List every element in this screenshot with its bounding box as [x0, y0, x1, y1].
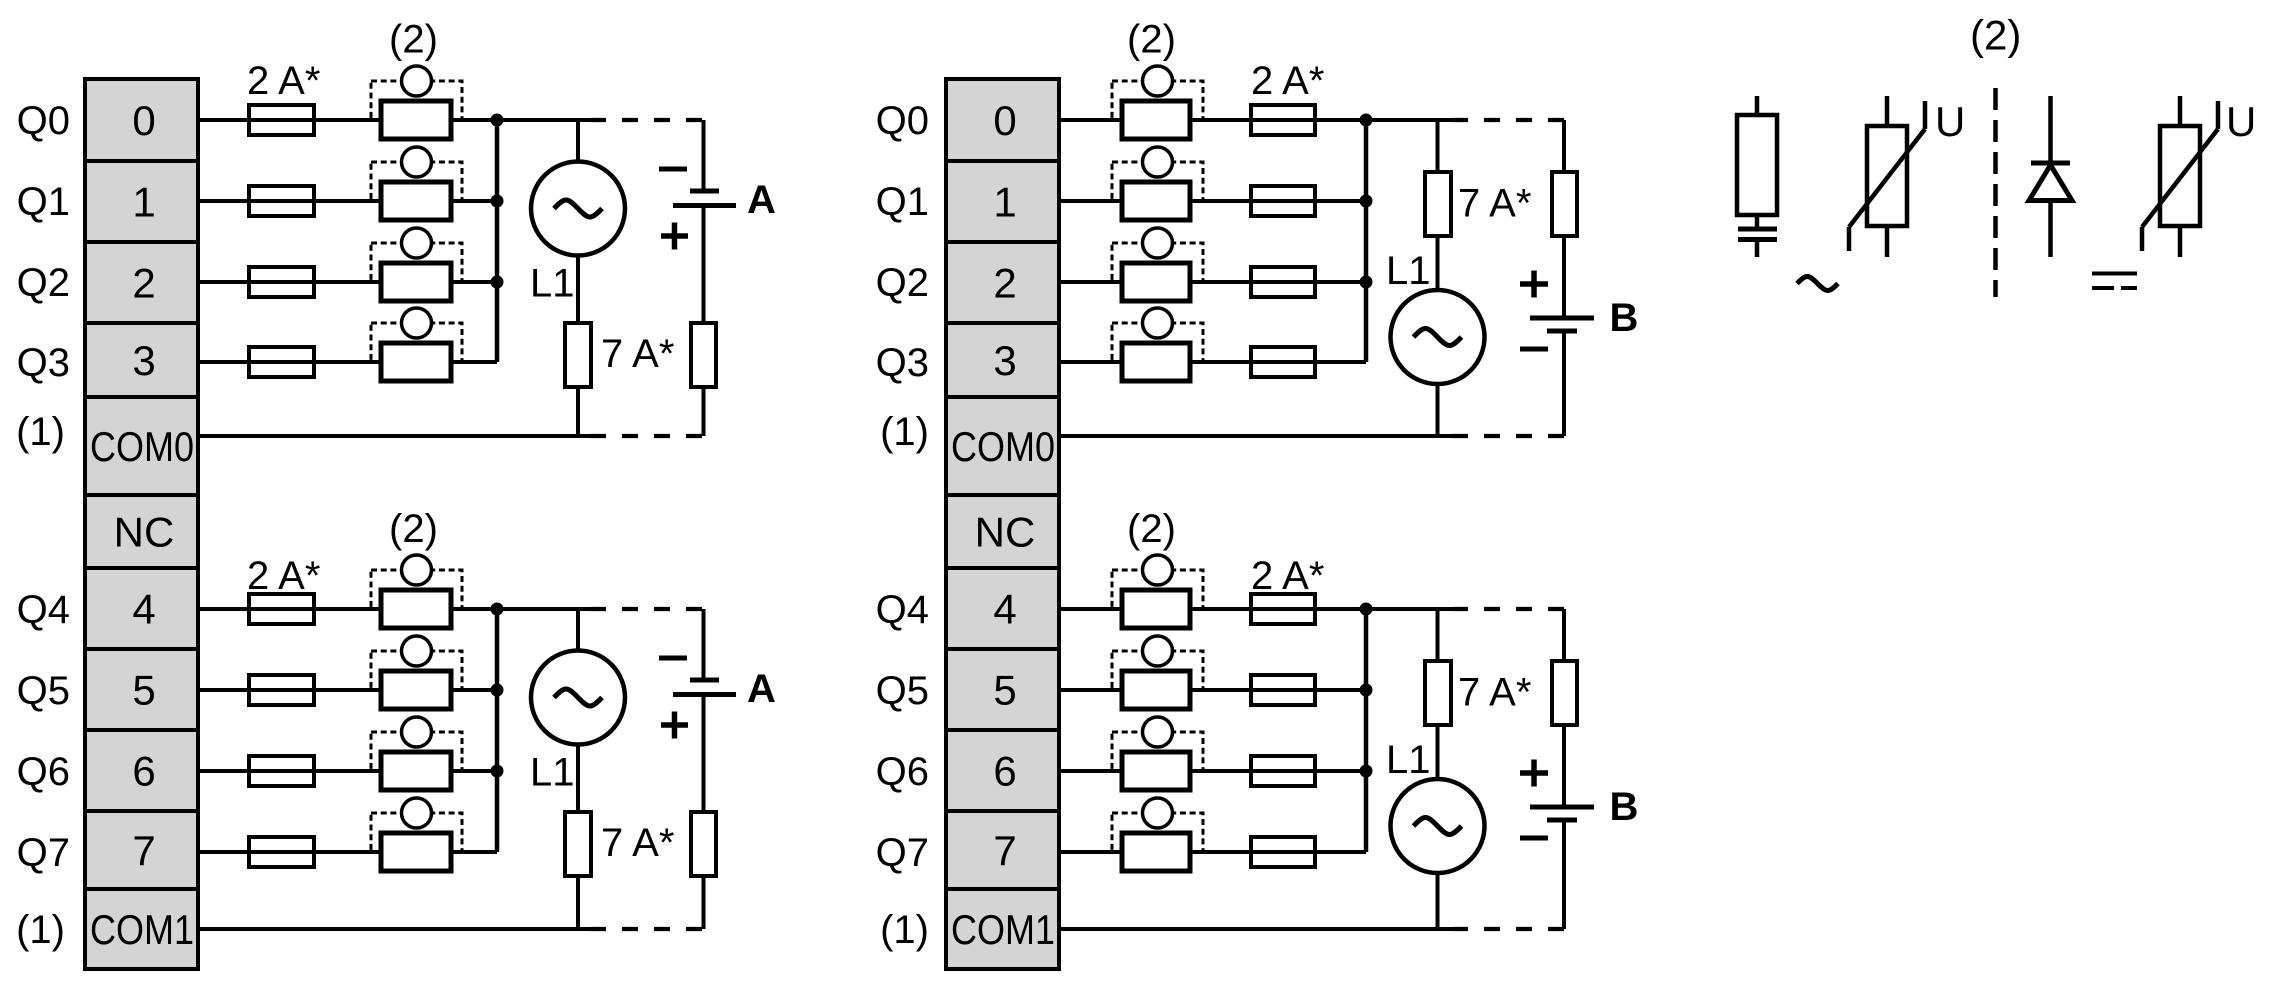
svg-text:U: U: [1935, 98, 1965, 145]
svg-text:(2): (2): [1970, 12, 2021, 59]
svg-text:2 A*: 2 A*: [247, 59, 320, 103]
svg-text:7 A*: 7 A*: [1458, 182, 1531, 226]
svg-text:Q5: Q5: [876, 669, 929, 713]
svg-text:1: 1: [132, 179, 155, 226]
svg-text:7: 7: [993, 827, 1016, 874]
svg-text:(2): (2): [389, 18, 438, 62]
svg-text:7 A*: 7 A*: [601, 821, 674, 865]
svg-text:2 A*: 2 A*: [1251, 554, 1324, 598]
svg-text:L1: L1: [1386, 249, 1431, 293]
svg-text:Q4: Q4: [17, 588, 70, 632]
svg-text:Q7: Q7: [876, 831, 929, 875]
svg-text:COM1: COM1: [951, 906, 1055, 953]
svg-text:Q2: Q2: [17, 261, 70, 305]
svg-text:(2): (2): [1127, 18, 1176, 62]
svg-text:3: 3: [132, 337, 155, 384]
svg-text:(1): (1): [16, 908, 65, 952]
svg-text:(2): (2): [1127, 507, 1176, 551]
svg-text:Q0: Q0: [876, 99, 929, 143]
svg-text:A: A: [747, 667, 776, 711]
svg-text:0: 0: [993, 97, 1016, 144]
svg-text:B: B: [1610, 785, 1639, 829]
svg-text:5: 5: [993, 667, 1016, 714]
svg-text:7 A*: 7 A*: [601, 332, 674, 376]
svg-text:Q7: Q7: [17, 831, 70, 875]
svg-text:7 A*: 7 A*: [1458, 671, 1531, 715]
svg-text:Q2: Q2: [876, 261, 929, 305]
svg-text:4: 4: [993, 586, 1016, 633]
svg-text:(1): (1): [880, 410, 929, 454]
svg-text:Q0: Q0: [17, 99, 70, 143]
svg-text:COM0: COM0: [90, 423, 194, 470]
svg-text:6: 6: [993, 748, 1016, 795]
svg-text:(2): (2): [389, 507, 438, 551]
svg-text:2: 2: [993, 260, 1016, 307]
svg-text:7: 7: [132, 827, 155, 874]
svg-text:2 A*: 2 A*: [247, 554, 320, 598]
svg-text:Q3: Q3: [17, 341, 70, 385]
svg-text:Q4: Q4: [876, 588, 929, 632]
svg-text:A: A: [747, 178, 776, 222]
svg-text:COM0: COM0: [951, 423, 1055, 470]
svg-text:NC: NC: [975, 509, 1036, 556]
svg-text:Q5: Q5: [17, 669, 70, 713]
svg-text:6: 6: [132, 748, 155, 795]
svg-text:Q3: Q3: [876, 341, 929, 385]
svg-text:4: 4: [132, 586, 155, 633]
svg-text:B: B: [1610, 296, 1639, 340]
svg-text:Q6: Q6: [876, 750, 929, 794]
svg-text:3: 3: [993, 337, 1016, 384]
svg-text:1: 1: [993, 179, 1016, 226]
svg-text:Q1: Q1: [876, 180, 929, 224]
svg-text:(1): (1): [16, 410, 65, 454]
svg-text:NC: NC: [114, 509, 175, 556]
svg-text:L1: L1: [530, 262, 575, 306]
svg-text:U: U: [2226, 98, 2256, 145]
svg-text:L1: L1: [530, 751, 575, 795]
svg-text:L1: L1: [1386, 738, 1431, 782]
svg-text:5: 5: [132, 667, 155, 714]
svg-text:COM1: COM1: [90, 906, 194, 953]
svg-text:0: 0: [132, 97, 155, 144]
svg-text:(1): (1): [880, 908, 929, 952]
svg-text:Q1: Q1: [17, 180, 70, 224]
svg-text:2: 2: [132, 260, 155, 307]
svg-text:2 A*: 2 A*: [1251, 59, 1324, 103]
svg-text:Q6: Q6: [17, 750, 70, 794]
